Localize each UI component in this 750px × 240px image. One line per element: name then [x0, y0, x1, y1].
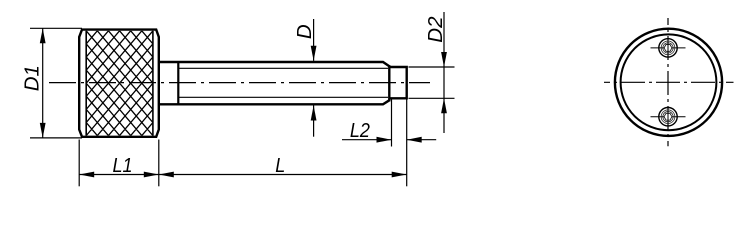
svg-text:D: D — [293, 24, 316, 39]
svg-text:D2: D2 — [424, 16, 447, 43]
svg-text:L2: L2 — [350, 120, 370, 142]
svg-text:D1: D1 — [21, 65, 44, 91]
svg-text:L: L — [275, 155, 285, 177]
svg-text:L1: L1 — [112, 155, 132, 177]
